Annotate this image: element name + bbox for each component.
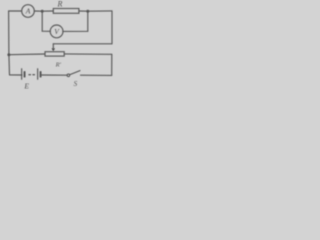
wire switch to bottom-right corner <box>81 74 112 76</box>
wire node B to top-right corner <box>88 10 112 12</box>
wire middle row left segment to rheostat <box>9 53 45 56</box>
switch S pivot <box>67 74 70 77</box>
wire bottom-left to battery <box>10 74 22 76</box>
voltmeter V <box>50 25 63 38</box>
slider arrow head <box>52 48 56 51</box>
wire slider vertical with arrow <box>52 44 54 49</box>
wire ammeter to node A <box>34 10 42 12</box>
node C junction dot on left border <box>7 53 10 56</box>
wire voltmeter to node B vertical <box>63 11 88 31</box>
wire top-left from left border to ammeter <box>9 10 22 12</box>
wire right border upper segment down to tap wire <box>111 11 113 44</box>
svg-text:R′: R′ <box>55 61 62 68</box>
switch S lever <box>70 71 80 75</box>
wire node A down to voltmeter branch <box>42 11 50 31</box>
svg-text:S: S <box>74 80 78 88</box>
battery E cell2 short thick plate <box>40 71 42 77</box>
svg-text:E: E <box>23 82 29 91</box>
rheostat R' body <box>45 52 64 56</box>
wire battery to switch <box>41 74 67 76</box>
wire node A to resistor R <box>42 10 53 12</box>
svg-text:R: R <box>57 0 63 9</box>
battery dashes <box>28 74 31 75</box>
left border wire <box>8 11 11 75</box>
wire rheostat tap from right border to slider <box>53 43 112 45</box>
battery E cell2 long plate <box>37 68 38 79</box>
wire middle row right segment from rheostat to right border <box>64 53 111 55</box>
battery E cell1 long plate <box>21 68 22 79</box>
svg-text:A: A <box>25 7 31 16</box>
resistor R <box>53 9 79 14</box>
node A junction dot <box>41 10 44 13</box>
wire resistor R to node B <box>79 10 88 12</box>
wire right border lower segment <box>111 54 113 75</box>
battery E cell1 short thick plate <box>24 71 26 77</box>
node B junction dot <box>86 10 89 13</box>
ammeter A <box>22 5 35 18</box>
